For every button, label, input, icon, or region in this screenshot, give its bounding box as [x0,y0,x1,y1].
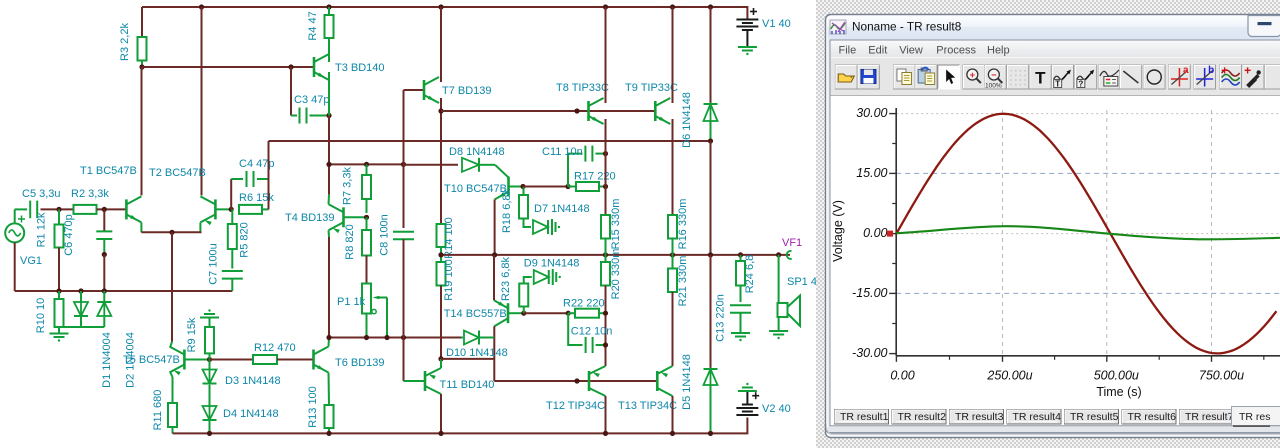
svg-text:T3 BD140: T3 BD140 [335,62,385,74]
svg-text:-15.00: -15.00 [852,286,887,300]
svg-text:0.00: 0.00 [890,369,914,383]
svg-text:TR result7: TR result7 [1185,411,1234,423]
svg-text:R21 330m: R21 330m [677,256,689,307]
svg-text:Process: Process [936,45,976,57]
svg-text:R17 220: R17 220 [574,171,616,183]
svg-text:R4 47: R4 47 [307,11,319,40]
svg-text:T13 TIP34C: T13 TIP34C [618,400,677,412]
svg-text:b: b [1208,65,1214,76]
svg-text:D6 1N4148: D6 1N4148 [681,92,693,148]
svg-text:Help: Help [987,45,1010,57]
svg-text:T4 BD139: T4 BD139 [285,212,335,224]
svg-text:R9 15k: R9 15k [186,317,198,352]
svg-text:100%: 100% [985,83,1002,90]
svg-text:R13 100: R13 100 [307,386,319,428]
svg-text:D7 1N4148: D7 1N4148 [534,203,590,215]
svg-text:C6 470p: C6 470p [63,214,75,256]
svg-text:−: − [991,70,997,81]
svg-text:C8 100n: C8 100n [379,214,391,256]
svg-text:R5 820: R5 820 [239,222,251,257]
svg-text:TR result6: TR result6 [1128,411,1177,423]
svg-text:R2 3,3k: R2 3,3k [71,188,109,200]
svg-text:T2 BC547B: T2 BC547B [149,167,206,179]
svg-text:D8 1N4148: D8 1N4148 [449,146,505,158]
svg-text:C3 47p: C3 47p [294,94,329,106]
svg-text:R12 470: R12 470 [254,342,296,354]
svg-text:SP1 4: SP1 4 [787,276,817,288]
svg-text:500.00u: 500.00u [1094,369,1139,383]
svg-text:T8 TIP33C: T8 TIP33C [556,82,609,94]
svg-text:T5 BC547B: T5 BC547B [123,354,180,366]
svg-text:T10 BC547B: T10 BC547B [444,183,507,195]
svg-text:VF1: VF1 [782,237,802,249]
svg-text:Voltage (V): Voltage (V) [831,200,845,262]
svg-text:R23 6,8k: R23 6,8k [500,256,512,301]
svg-text:750.00u: 750.00u [1199,369,1244,383]
svg-text:T9 TIP33C: T9 TIP33C [625,82,678,94]
svg-text:R22 220: R22 220 [563,298,605,310]
svg-text:C5 3,3u: C5 3,3u [22,188,61,200]
svg-text:TR result4: TR result4 [1013,411,1062,423]
svg-text:a: a [1183,65,1189,76]
svg-text:R8 820: R8 820 [344,224,356,259]
svg-text:D1 1N4004: D1 1N4004 [101,332,113,388]
svg-text:R14 100: R14 100 [443,217,455,259]
svg-text:R7 3,3k: R7 3,3k [342,167,354,205]
svg-text:TR result5: TR result5 [1070,411,1119,423]
svg-text:C11 10n: C11 10n [542,146,583,158]
svg-text:V1 40: V1 40 [762,18,791,30]
svg-text:R3 2,2k: R3 2,2k [119,23,131,61]
svg-text:R20 330m: R20 330m [610,249,622,300]
svg-text:View: View [899,45,923,57]
svg-text:30.00: 30.00 [856,106,887,120]
svg-text:+: + [970,70,976,81]
svg-text:TR result3: TR result3 [955,411,1004,423]
svg-text:P1 1k: P1 1k [337,296,366,308]
svg-text:T14 BC557B: T14 BC557B [444,308,507,320]
svg-text:R19 100: R19 100 [443,259,455,301]
svg-text:R11 680: R11 680 [152,390,164,431]
svg-text:D5 1N4148: D5 1N4148 [681,354,693,410]
svg-text:R18 6,8k: R18 6,8k [501,188,513,233]
svg-text:R16 330m: R16 330m [677,199,689,250]
svg-text:R15 330m: R15 330m [610,199,622,250]
svg-text:C13 220n: C13 220n [715,294,727,342]
svg-text:+: + [1244,64,1251,78]
svg-text:R1 12k: R1 12k [36,212,48,247]
svg-text:TR result2: TR result2 [898,411,947,423]
svg-text:T1 BC547B: T1 BC547B [80,165,137,177]
svg-text:-30.00: -30.00 [852,346,887,360]
svg-text:D10 1N4148: D10 1N4148 [446,347,508,359]
svg-text:Time (s): Time (s) [1096,385,1141,399]
svg-text:T6 BD139: T6 BD139 [335,357,385,369]
svg-text:V2 40: V2 40 [762,403,791,415]
svg-text:Edit: Edit [868,45,887,57]
svg-text:T12 TIP34C: T12 TIP34C [546,400,605,412]
svg-text:TR res: TR res [1239,411,1271,423]
svg-text:D3 1N4148: D3 1N4148 [225,375,281,387]
svg-text:C12 10n: C12 10n [571,326,613,338]
svg-text:R10 10: R10 10 [35,298,47,333]
svg-text:TR result1: TR result1 [840,411,889,423]
svg-text:0.00: 0.00 [863,226,887,240]
svg-text:T: T [1055,80,1060,89]
svg-text:?: ? [1078,80,1083,89]
svg-text:T11 BD140: T11 BD140 [440,379,495,391]
svg-text:250.00u: 250.00u [986,369,1032,383]
svg-text:VG1: VG1 [20,255,42,267]
svg-text:C7 100u: C7 100u [208,243,220,285]
svg-text:File: File [839,45,857,57]
svg-text:D4 1N4148: D4 1N4148 [223,408,279,420]
svg-text:D9 1N4148: D9 1N4148 [524,258,580,270]
svg-text:+: + [1221,64,1228,78]
svg-text:T: T [1035,69,1046,88]
svg-text:T7 BD139: T7 BD139 [442,85,492,97]
svg-text:Noname - TR result8: Noname - TR result8 [852,20,962,34]
svg-text:R24 6,8: R24 6,8 [744,255,756,294]
svg-text:15.00: 15.00 [856,166,887,180]
